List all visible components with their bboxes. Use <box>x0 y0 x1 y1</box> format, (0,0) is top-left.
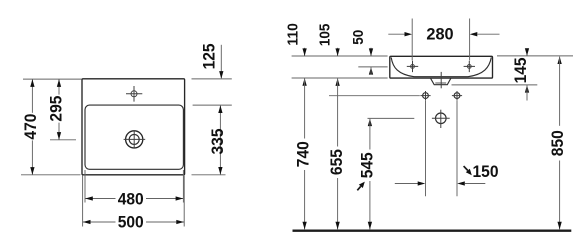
right faucet hole, front view <box>464 61 475 72</box>
dimension 500 (overall width) <box>83 220 185 224</box>
dimension 145 (rim to outlet bottom) <box>525 48 529 100</box>
extension line, bottom edge to right <box>192 174 226 176</box>
dimension 150 (fixing hole distance) <box>395 181 486 185</box>
svg-text:105: 105 <box>317 24 333 47</box>
extension line at siphon level <box>368 117 415 119</box>
extension line, outlet bottom level to right <box>452 84 538 86</box>
extension line, bowl top edge to right <box>193 104 232 106</box>
dimension 545 (floor to siphon) <box>368 119 372 230</box>
drain centreline <box>440 72 442 88</box>
washbasin outer edge, top view (500x470) <box>82 79 185 175</box>
basin bowl inner edge, top view <box>85 105 183 169</box>
siphon outlet circle <box>432 110 450 128</box>
floor line <box>293 229 572 231</box>
dimension 470 (left, overall depth) <box>30 79 34 174</box>
dimension 850 (floor to rim) <box>557 56 561 229</box>
drain outlet trapezoid under basin <box>431 78 451 84</box>
svg-text:295: 295 <box>48 96 66 122</box>
extension tick at drain level for 295 <box>50 139 76 141</box>
extension line, top edge to right <box>192 78 232 80</box>
extension line from right faucet hole up <box>469 19 471 61</box>
label 150 with arrow <box>464 163 499 181</box>
svg-text:850: 850 <box>549 130 567 156</box>
washbasin front outline <box>390 56 493 78</box>
extension line, faucet level to left <box>358 66 387 68</box>
svg-text:150: 150 <box>473 163 499 181</box>
right fixing hole <box>452 91 462 100</box>
extension line, rim level to left of basin <box>292 55 388 57</box>
svg-text:470: 470 <box>22 114 40 140</box>
dimension 335 (bowl edge to front edge) <box>218 105 222 174</box>
svg-text:145: 145 <box>512 57 530 83</box>
drain outlet inner line <box>435 82 446 84</box>
extension line, rim level to right of basin <box>497 55 573 57</box>
dimension 105 and 655 shared line <box>335 48 339 230</box>
dimension 110 and 740 shared line <box>302 48 306 230</box>
extension lines for 500 below <box>82 176 84 227</box>
left faucet hole, front view <box>407 61 418 72</box>
extension line at fixing hole level <box>329 95 420 97</box>
extension line from right fixing hole down <box>456 100 458 196</box>
extension line from left faucet hole up <box>411 19 413 61</box>
dimension 480 (bowl width) <box>85 196 183 200</box>
label 545 with arrow <box>357 152 376 190</box>
extension line from left fixing hole down <box>425 100 427 196</box>
extension line, basin bottom level to left <box>292 77 388 79</box>
dimension 50 (rim to faucet level) <box>369 48 373 75</box>
svg-text:655: 655 <box>328 149 346 175</box>
bowl curve, front view <box>391 57 491 76</box>
faucet hole, top view <box>126 86 142 102</box>
dimension 295 (top edge to drain centre) <box>57 79 61 139</box>
dimension 125 (top edge to bowl edge) <box>219 45 223 79</box>
svg-text:125: 125 <box>201 43 219 69</box>
left fixing hole <box>420 91 430 100</box>
svg-text:740: 740 <box>295 141 313 167</box>
drain, top view <box>124 131 146 148</box>
svg-text:545: 545 <box>359 152 377 178</box>
svg-text:50: 50 <box>351 30 367 45</box>
svg-text:480: 480 <box>118 190 144 208</box>
svg-text:110: 110 <box>286 23 302 46</box>
svg-text:280: 280 <box>426 25 453 43</box>
dimension 280 (faucet hole distance) <box>388 32 499 36</box>
extension line, bottom edge to left <box>21 174 81 176</box>
extension line, top edge to left <box>23 78 81 80</box>
svg-text:335: 335 <box>209 129 227 155</box>
extension lines for 480 below <box>84 170 86 203</box>
svg-text:500: 500 <box>118 214 144 232</box>
